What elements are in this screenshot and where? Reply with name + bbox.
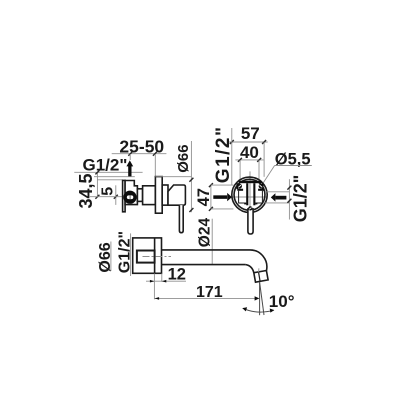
- escutcheon outer circle (front view): [232, 177, 267, 212]
- right inlet arrow: [271, 193, 287, 201]
- spout flange divider: [154, 238, 156, 273]
- angle arc: [243, 308, 274, 312]
- bracket right hook: [258, 189, 264, 191]
- dim 25-50 tick right: [153, 152, 157, 156]
- dim 12 line: [146, 280, 186, 282]
- handle lever (front view): [248, 209, 253, 234]
- angle arc arrowhead left: [242, 307, 247, 311]
- dim 171 arrow left: [155, 297, 160, 300]
- svg-text:57: 57: [241, 124, 260, 143]
- screw top right slot: [260, 185, 263, 187]
- right port box vertical line: [288, 179, 290, 219]
- spout outer curve: [250, 250, 267, 271]
- front view vertical center line: [249, 171, 251, 208]
- spout inner curve: [245, 265, 254, 273]
- svg-text:Ø66: Ø66: [175, 144, 192, 172]
- extension 40 right: [258, 160, 260, 181]
- extension line escutcheon top: [155, 176, 191, 178]
- dim 47 tick bottom: [189, 208, 193, 212]
- valve inlet slot: [127, 195, 134, 199]
- svg-text:G1/2": G1/2": [213, 125, 234, 183]
- bracket left ear: [237, 183, 239, 189]
- svg-text:40: 40: [240, 143, 259, 162]
- dim 5 line: [115, 185, 117, 205]
- leader G1/2 spout: [130, 233, 132, 276]
- spout tube top line: [162, 249, 251, 251]
- leader line under G1/2 top left: [74, 171, 142, 173]
- aerator stub line: [258, 268, 260, 272]
- svg-text:G1/2": G1/2": [83, 155, 128, 174]
- bracket slot left wall: [246, 183, 248, 205]
- valve mounting plate (side view): [123, 180, 126, 211]
- bracket top bar: [239, 181, 262, 183]
- extension line left of 25-50: [129, 154, 131, 160]
- inlet slot divider: [130, 195, 131, 199]
- extension wall face: [153, 274, 155, 300]
- screw bottom center: [248, 206, 252, 210]
- spout tube bottom line: [162, 264, 246, 266]
- dim 47 line: [190, 177, 192, 213]
- valve stem: [137, 189, 142, 202]
- dim 40 tick left: [238, 158, 242, 162]
- dim 171 arrowhead right: [255, 296, 260, 300]
- svg-text:5: 5: [100, 187, 117, 196]
- dim 40 tick right: [257, 158, 261, 162]
- dim 5 tick: [114, 195, 118, 199]
- extension line right of 25-50: [154, 154, 156, 177]
- bracket left hook: [237, 189, 243, 191]
- dim 25-50 tick left: [128, 152, 132, 156]
- left port box tick top: [209, 183, 213, 187]
- escutcheon plate (side view): [155, 177, 162, 214]
- svg-text:Ø24: Ø24: [196, 218, 213, 248]
- spout center line dashes: [143, 256, 172, 258]
- valve inlet port black circle: [123, 191, 136, 204]
- stream angled line: [260, 282, 264, 315]
- dim 47 tick top: [189, 178, 193, 182]
- leader O5,5 underline: [275, 165, 312, 167]
- bracket left cutout border: [239, 191, 247, 203]
- handle body: [168, 185, 185, 205]
- dim 57 line: [228, 141, 267, 143]
- right port box top line: [265, 191, 289, 193]
- inlet center line: [89, 196, 122, 198]
- screw bottom slot: [249, 208, 251, 210]
- dim 12 arrow right: [162, 280, 167, 283]
- dim 40 line: [235, 159, 263, 161]
- handle cap: [162, 185, 168, 205]
- left port box dim line: [210, 185, 212, 209]
- left inlet arrow: [213, 193, 232, 201]
- bracket right foot: [255, 203, 257, 205]
- bracket left foot: [244, 203, 246, 205]
- angle arc arrowhead right: [270, 309, 275, 313]
- leader G1/2 front left: [231, 128, 233, 185]
- leader O66 spout: [110, 242, 112, 272]
- dim 57 tick left: [230, 140, 234, 144]
- dim 34,5 line: [96, 172, 98, 197]
- screw top right: [259, 184, 264, 189]
- right port tick top: [287, 186, 291, 190]
- dim 25-50 line: [112, 153, 167, 155]
- stream vertical line: [259, 282, 261, 315]
- dim 34,5 tick top: [95, 170, 99, 174]
- bracket right cutout border: [255, 191, 262, 203]
- leader O66 escutcheon: [190, 141, 192, 177]
- right port tick bottom: [287, 199, 291, 203]
- valve cartridge housing: [143, 186, 156, 205]
- screw top left: [237, 184, 242, 189]
- left port box tick bottom: [209, 207, 213, 211]
- escutcheon inner circle (front view): [234, 179, 265, 210]
- right port box bottom line: [265, 202, 289, 204]
- svg-text:47: 47: [195, 188, 213, 206]
- extension flange front: [161, 274, 163, 282]
- screw top left slot: [238, 185, 241, 187]
- svg-text:G1/2": G1/2": [290, 175, 310, 223]
- front view horizontal center line: [231, 196, 267, 198]
- left port box bottom line: [211, 208, 234, 210]
- extension 40 left: [239, 160, 241, 181]
- bracket slot right wall: [253, 183, 255, 205]
- leader O5,5 diagonal: [262, 166, 275, 185]
- extension 57 right: [263, 142, 265, 176]
- spout aerator tip: [254, 271, 268, 283]
- dim 171 line: [154, 297, 258, 299]
- aerator divider: [259, 272, 261, 282]
- svg-text:12: 12: [168, 265, 186, 283]
- valve body (side view): [125, 181, 137, 205]
- dim 57 tick right: [262, 140, 266, 144]
- svg-text:34,5: 34,5: [76, 173, 96, 208]
- spout G1/2 stub: [137, 251, 155, 263]
- extension line y180.1: [98, 179, 123, 181]
- handle lever (side view): [179, 205, 183, 233]
- extension line y176.7 left: [94, 176, 135, 178]
- dim 34,5 tick bottom: [95, 195, 99, 199]
- svg-text:Ø5,5: Ø5,5: [275, 151, 311, 169]
- dim 12 arrow left: [150, 280, 155, 283]
- spout flange (side view): [133, 238, 162, 273]
- bracket right ear: [262, 183, 264, 189]
- inlet arrow up: [126, 160, 133, 176]
- leader O24: [211, 219, 213, 265]
- left port box top line: [211, 184, 234, 186]
- svg-text:10°: 10°: [269, 292, 295, 311]
